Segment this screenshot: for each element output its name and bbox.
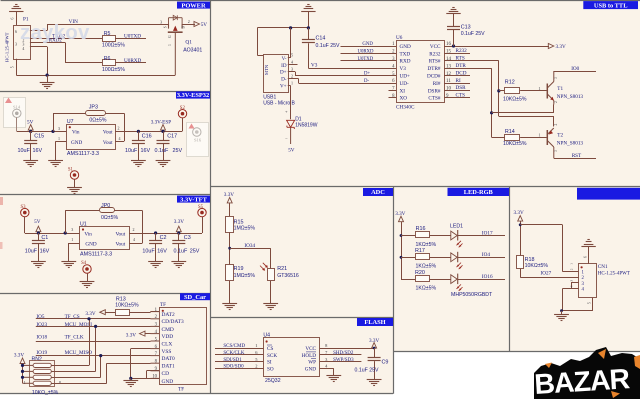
svg-text:GND: GND xyxy=(85,241,96,247)
svg-text:6: 6 xyxy=(11,18,15,20)
test point S14 (faded) xyxy=(4,98,26,128)
wire R17 to LED2 xyxy=(430,257,451,259)
svg-text:RTS: RTS xyxy=(456,56,465,62)
jumper JP0 xyxy=(100,208,115,213)
wire JP0 to Vout rail xyxy=(114,210,142,212)
svg-text:SCK/CLK: SCK/CLK xyxy=(223,351,245,356)
svg-text:Vout: Vout xyxy=(103,140,113,146)
svg-text:5: 5 xyxy=(291,53,293,58)
svg-text:POWER: POWER xyxy=(181,2,206,9)
svg-text:IO34: IO34 xyxy=(244,243,255,249)
ground CN1 bottom xyxy=(561,311,563,315)
svg-text:D-: D- xyxy=(364,79,369,84)
wire R13 to TF pin1 xyxy=(129,312,150,314)
wire usb D- to U6 UD- xyxy=(288,78,299,80)
wire P1 top pin to ground xyxy=(16,11,18,25)
svg-text:FLASH: FLASH xyxy=(364,319,385,326)
wire LED2 to IO4 xyxy=(458,257,505,259)
svg-text:IO16: IO16 xyxy=(482,274,493,280)
wire RN2 row3 pullup MISO xyxy=(51,377,100,379)
svg-text:V3: V3 xyxy=(400,66,407,72)
transistor T1 NPN_S8013 xyxy=(546,84,548,99)
wire P1 pin6 to VIN xyxy=(30,30,47,32)
svg-text:C3: C3 xyxy=(184,235,191,241)
svg-text:IO18: IO18 xyxy=(36,335,47,341)
svg-text:16V: 16V xyxy=(141,148,151,154)
svg-text:G: G xyxy=(168,35,172,38)
resistor R17 xyxy=(401,257,415,259)
wire RN2 row4 pullup DAT1 xyxy=(51,383,106,385)
svg-text:U1: U1 xyxy=(80,222,87,228)
node IO34 xyxy=(228,247,231,250)
wire U4 WP SWP/SD3 xyxy=(320,361,362,363)
section title bar 3.3V-ESP32 xyxy=(176,91,210,98)
svg-text:3: 3 xyxy=(291,66,293,71)
wire R12 left xyxy=(499,90,505,92)
svg-text:−: − xyxy=(285,137,288,142)
wire JP3 branch up xyxy=(53,113,55,131)
svg-text:LED-RGB: LED-RGB xyxy=(464,189,494,196)
ground POWER rail xyxy=(47,75,49,83)
svg-text:MHP5050RGBDT: MHP5050RGBDT xyxy=(451,292,493,298)
svg-text:Vin: Vin xyxy=(72,129,80,135)
svg-text:D+: D+ xyxy=(364,71,370,76)
svg-text:C13: C13 xyxy=(461,25,471,31)
svg-text:1KΩ±5%: 1KΩ±5% xyxy=(416,264,437,270)
svg-text:IO23: IO23 xyxy=(36,322,47,328)
svg-text:DTR#: DTR# xyxy=(428,66,441,72)
svg-text:0.1uF: 0.1uF xyxy=(174,249,188,255)
ground R19 xyxy=(222,303,237,305)
ground C1 xyxy=(31,261,46,263)
ground U1 xyxy=(61,261,76,263)
wire R18 to IO27 / CN1 pin2 xyxy=(520,269,522,278)
node CN1 ground xyxy=(560,309,563,312)
svg-text:10uF: 10uF xyxy=(25,249,38,255)
svg-text:SCS/CMD: SCS/CMD xyxy=(223,344,245,349)
section title bar LED-RGB xyxy=(448,188,510,196)
U7 pin4 wire xyxy=(115,141,124,143)
svg-text:NPN_S8013: NPN_S8013 xyxy=(557,140,584,146)
red watermark mark left border TFT xyxy=(0,197,3,205)
svg-text:1: 1 xyxy=(255,343,257,348)
svg-text:R5: R5 xyxy=(104,31,111,37)
ground TF xyxy=(130,378,132,380)
ground C3 xyxy=(171,261,186,263)
ground (inverted) usb xyxy=(301,11,315,13)
svg-text:DTR: DTR xyxy=(456,63,467,69)
wire S5 down xyxy=(202,217,204,233)
wire DTR to transistor branch xyxy=(444,68,492,70)
wire RN2 row1 pullup CS xyxy=(51,365,89,367)
U4 left net stubs xyxy=(215,348,263,350)
svg-text:2: 2 xyxy=(554,101,558,103)
svg-text:0.1uF 25V: 0.1uF 25V xyxy=(355,368,379,374)
U1 pin2 wire xyxy=(129,233,202,235)
node C17 xyxy=(161,130,164,133)
svg-text:SWP/SD3: SWP/SD3 xyxy=(333,358,354,363)
wire R15 to node IO34 xyxy=(229,232,231,264)
power arrow 3.3V vcc xyxy=(548,44,554,49)
svg-text:3.3V: 3.3V xyxy=(126,333,136,339)
svg-text:2: 2 xyxy=(188,19,190,24)
svg-text:3: 3 xyxy=(554,77,558,79)
section title bar FLASH xyxy=(357,318,393,326)
svg-text:IO17: IO17 xyxy=(482,230,493,236)
svg-text:USB1: USB1 xyxy=(263,94,276,100)
svg-text:DCD#: DCD# xyxy=(427,74,441,80)
svg-text:IO4: IO4 xyxy=(482,252,490,258)
wire R6 to U0RXD xyxy=(115,62,146,64)
svg-text:RTS#: RTS# xyxy=(429,59,441,65)
svg-text:C1: C1 xyxy=(41,235,48,241)
wire net IO5 TF_CS xyxy=(36,318,151,320)
CN1 pin3 pin4 stubs xyxy=(571,282,579,284)
svg-text:1: 1 xyxy=(570,263,574,265)
wire net IO18 TF_CLK xyxy=(36,341,151,343)
svg-text:R21: R21 xyxy=(277,266,287,272)
svg-text:C16: C16 xyxy=(142,134,152,140)
node RTS R12 junction xyxy=(497,89,500,92)
wire IO0 xyxy=(554,71,596,73)
svg-text:AMS1117-3.3: AMS1117-3.3 xyxy=(80,252,112,258)
svg-text:VCC: VCC xyxy=(305,346,316,352)
svg-text:DSR: DSR xyxy=(456,85,467,91)
svg-text:4: 4 xyxy=(133,237,135,242)
svg-text:1N5819W: 1N5819W xyxy=(295,122,318,128)
svg-text:1: 1 xyxy=(24,380,26,385)
svg-text:DAT1: DAT1 xyxy=(162,364,175,370)
svg-text:MCU_MISO: MCU_MISO xyxy=(65,350,93,356)
svg-text:6: 6 xyxy=(584,256,588,258)
bazar watermark logo xyxy=(534,347,640,399)
svg-text:CH340C: CH340C xyxy=(396,104,415,110)
svg-text:25V: 25V xyxy=(173,148,183,154)
svg-text:GT36516: GT36516 xyxy=(277,273,299,279)
section border frame xyxy=(1,0,640,2)
svg-text:C14: C14 xyxy=(316,36,326,42)
wire 3.3V to CN1 pin1 xyxy=(520,224,562,226)
svg-text:1KΩ±5%: 1KΩ±5% xyxy=(416,242,437,248)
svg-text:USB to TTL: USB to TTL xyxy=(594,2,628,9)
capacitor C14 xyxy=(308,28,310,40)
wire S14 to 5V rail xyxy=(16,118,18,132)
svg-text:XO: XO xyxy=(400,96,408,102)
wire R21 to ground xyxy=(270,281,272,304)
wire R12 to T1 base xyxy=(520,90,547,92)
wire S3 to rail xyxy=(24,217,26,233)
resistor R5 xyxy=(103,36,116,42)
capacitor C3 xyxy=(178,233,180,240)
svg-text:zaykov: zaykov xyxy=(20,21,90,44)
ground C15 xyxy=(23,160,38,162)
svg-text:10KΩ±5%: 10KΩ±5% xyxy=(115,303,139,309)
node C1 xyxy=(37,231,40,234)
section title bar POWER xyxy=(177,2,210,9)
svg-text:GND: GND xyxy=(305,366,316,372)
regulator U7 AMS1117-3.3 xyxy=(67,125,116,150)
U7 pin1 wire to ground xyxy=(56,141,67,143)
svg-text:DAT2: DAT2 xyxy=(162,312,175,318)
section title bar ADC xyxy=(363,188,393,196)
svg-text:DSR#: DSR# xyxy=(428,88,441,94)
svg-text:ADC: ADC xyxy=(371,189,385,196)
wire S4 to ground xyxy=(87,273,89,281)
wire V3 net xyxy=(308,68,396,70)
svg-text:3.3V-ESP32: 3.3V-ESP32 xyxy=(177,92,209,99)
svg-text:IO27: IO27 xyxy=(541,271,552,277)
svg-text:4: 4 xyxy=(22,46,24,51)
svg-text:10KΩ±5%: 10KΩ±5% xyxy=(503,96,527,102)
svg-text:1MΩ±5%: 1MΩ±5% xyxy=(234,273,256,279)
svg-text:R6: R6 xyxy=(104,56,111,62)
svg-text:3.3V: 3.3V xyxy=(514,210,524,216)
U1 pin1 wire to ground xyxy=(69,243,80,245)
ground C17 xyxy=(156,160,171,162)
wire ground rail POWER xyxy=(16,75,175,77)
node TF ground xyxy=(129,377,132,380)
svg-text:WP: WP xyxy=(308,360,316,366)
resistor R19 xyxy=(226,265,234,281)
U6 right stubs DCD RI DSR CTS xyxy=(444,75,470,77)
svg-text:2: 2 xyxy=(255,364,257,369)
wire usb V+ down to D1 xyxy=(288,85,291,87)
svg-text:3.3V-TFT: 3.3V-TFT xyxy=(180,196,207,203)
node JP3 branch xyxy=(51,130,54,133)
svg-text:2: 2 xyxy=(118,125,120,130)
wire JP0 branch xyxy=(65,211,67,234)
wire LED1 to IO17 xyxy=(458,235,505,237)
svg-text:5: 5 xyxy=(11,66,15,68)
LED green element xyxy=(451,253,457,262)
wire CD/GND pins xyxy=(147,370,160,372)
ground S1 xyxy=(67,187,82,189)
node usb gnd xyxy=(307,26,310,29)
wire T1 emitter return xyxy=(492,112,554,114)
svg-text:GND: GND xyxy=(71,140,82,146)
capacitor C2 xyxy=(155,233,157,240)
svg-text:R12: R12 xyxy=(505,79,515,85)
TF pin stubs xyxy=(151,311,160,313)
svg-text:R13: R13 xyxy=(116,296,126,302)
wire net IO19 MCU_MISO xyxy=(36,355,151,357)
svg-text:VCC: VCC xyxy=(430,44,441,50)
svg-text:RXD: RXD xyxy=(400,59,411,65)
svg-text:SD_Car: SD_Car xyxy=(184,294,206,301)
svg-text:CTS#: CTS# xyxy=(428,96,441,102)
svg-text:GND: GND xyxy=(400,44,411,50)
svg-text:10uF: 10uF xyxy=(142,249,155,255)
wire R5 to U0TXD xyxy=(115,38,146,40)
LED blue element xyxy=(451,275,457,284)
ground R21 xyxy=(263,303,278,305)
node 3.3V branch cn1 xyxy=(519,223,522,226)
node P1 gnd junction xyxy=(46,74,49,77)
svg-text:CD/DAT3: CD/DAT3 xyxy=(162,319,184,325)
svg-text:U0RXD: U0RXD xyxy=(124,58,142,64)
svg-text:10KΩ±5%: 10KΩ±5% xyxy=(503,141,527,147)
svg-text:DAT0: DAT0 xyxy=(162,356,175,362)
svg-text:VDD: VDD xyxy=(162,334,174,340)
svg-text:16V: 16V xyxy=(40,249,50,255)
svg-text:TF_CLK: TF_CLK xyxy=(65,335,84,341)
svg-text:4: 4 xyxy=(291,60,293,65)
svg-text:VSS: VSS xyxy=(162,349,172,355)
svg-text:IO19: IO19 xyxy=(36,350,47,356)
svg-text:10KΩ_±5%: 10KΩ_±5% xyxy=(32,390,59,396)
svg-text:4: 4 xyxy=(570,285,574,287)
svg-text:8: 8 xyxy=(59,380,61,385)
svg-text:MTN: MTN xyxy=(264,64,269,75)
svg-text:0.1uF 25V: 0.1uF 25V xyxy=(316,43,340,49)
capacitor C16 xyxy=(138,131,140,140)
CN1 pin6 wire up to ground xyxy=(588,247,590,264)
svg-text:R232: R232 xyxy=(429,51,441,57)
transistor T2 NPN_S8013 xyxy=(546,130,548,145)
node C9 xyxy=(373,347,376,350)
svg-text:T1: T1 xyxy=(557,86,563,92)
svg-text:AO3401: AO3401 xyxy=(183,48,202,54)
svg-text:HC-1.25-4PWT: HC-1.25-4PWT xyxy=(5,32,10,62)
svg-text:Vout: Vout xyxy=(103,129,113,135)
svg-text:4: 4 xyxy=(119,136,121,141)
node JP0 branch xyxy=(64,231,67,234)
svg-text:1: 1 xyxy=(539,86,541,91)
ground C2 xyxy=(148,261,163,263)
resistor R15 xyxy=(226,217,234,233)
svg-text:RI: RI xyxy=(456,78,461,84)
svg-text:SDO/SD0: SDO/SD0 xyxy=(223,365,244,370)
node C2 xyxy=(154,231,157,234)
svg-text:SCK: SCK xyxy=(267,353,277,359)
svg-text:0Ω±5%: 0Ω±5% xyxy=(101,215,118,221)
svg-text:CLX: CLX xyxy=(162,341,173,347)
wire IO34 branch xyxy=(230,248,271,250)
ground (inverted) C13 xyxy=(446,13,460,15)
svg-text:1: 1 xyxy=(71,237,73,242)
svg-text:3: 3 xyxy=(15,42,17,47)
ground U4 xyxy=(326,375,341,377)
wire RST xyxy=(554,158,596,160)
wire net IO23 MCU_MOSI xyxy=(36,326,151,328)
resistor R6 xyxy=(103,60,116,66)
wire R16 to LED1 xyxy=(430,235,451,237)
ground S4 xyxy=(80,281,95,283)
svg-text:CTS: CTS xyxy=(456,93,466,99)
svg-text:3.3V: 3.3V xyxy=(85,311,95,317)
svg-text:3: 3 xyxy=(160,20,162,25)
wire LED3 to IO16 xyxy=(458,279,505,281)
svg-text:SI: SI xyxy=(267,360,272,366)
svg-text:HC-1.25-4PWT: HC-1.25-4PWT xyxy=(598,272,630,277)
svg-text:12: 12 xyxy=(446,72,452,77)
svg-text:SDI/SD1: SDI/SD1 xyxy=(223,358,242,363)
U6 right stub R232 xyxy=(444,53,470,55)
ground C9 xyxy=(367,379,382,381)
svg-text:1: 1 xyxy=(291,80,293,85)
node DTR emitter junction xyxy=(490,111,493,114)
regulator U1 AMS1117-3.3 xyxy=(80,227,130,250)
svg-text:5V: 5V xyxy=(201,22,208,28)
wire S2 down xyxy=(182,118,184,131)
ground C16 xyxy=(131,160,146,162)
svg-text:16V: 16V xyxy=(33,148,43,154)
svg-text:D-: D- xyxy=(281,77,287,83)
svg-text:MCU_MOSI: MCU_MOSI xyxy=(65,322,93,328)
wire RTS to transistor T2 branch xyxy=(444,60,499,62)
svg-text:5V: 5V xyxy=(34,219,41,225)
connector CN1 HC-1.25-4PWT xyxy=(579,264,597,298)
svg-text:2: 2 xyxy=(291,73,293,78)
svg-text:1: 1 xyxy=(539,133,541,138)
node usb shield xyxy=(289,26,292,29)
svg-text:RST: RST xyxy=(572,153,582,159)
wire usb V- up xyxy=(288,57,291,59)
svg-text:JP3: JP3 xyxy=(89,104,98,110)
svg-text:S: S xyxy=(164,26,168,28)
svg-text:2: 2 xyxy=(570,268,574,270)
svg-text:AMS1117-3.3: AMS1117-3.3 xyxy=(67,151,99,157)
capacitor C13 xyxy=(453,30,455,47)
svg-text:U0TXD: U0TXD xyxy=(124,33,141,39)
wire JP3 to Vout rail xyxy=(105,113,124,115)
photoresistor R21 GT36516 xyxy=(268,269,275,281)
svg-text:1: 1 xyxy=(168,44,172,46)
svg-text:1KΩ±5%: 1KΩ±5% xyxy=(416,285,437,291)
svg-text:SHD/SD2: SHD/SD2 xyxy=(333,351,354,356)
svg-text:3.3V: 3.3V xyxy=(224,192,234,198)
svg-text:16V: 16V xyxy=(157,249,167,255)
svg-text:U7: U7 xyxy=(67,119,74,125)
svg-text:25Q32: 25Q32 xyxy=(265,378,281,384)
node C3 xyxy=(177,231,180,234)
svg-text:HOLD: HOLD xyxy=(302,353,317,359)
svg-text:2: 2 xyxy=(133,227,135,232)
svg-text:Q1: Q1 xyxy=(185,39,192,45)
svg-text:10uF: 10uF xyxy=(18,148,31,154)
svg-text:IO0: IO0 xyxy=(571,66,579,72)
svg-text:TF: TF xyxy=(178,386,184,392)
svg-text:SO: SO xyxy=(267,366,274,372)
wire R19 to ground xyxy=(229,281,231,304)
capacitor C15 xyxy=(30,131,32,140)
svg-text:UD-: UD- xyxy=(400,81,409,87)
wire RN2 row2 pullup MOSI xyxy=(51,371,95,373)
wire Q1 to 5V xyxy=(182,24,195,26)
svg-text:R232: R232 xyxy=(456,48,468,54)
connector P1 xyxy=(14,26,31,60)
svg-text:10uF: 10uF xyxy=(125,148,138,154)
U6 left stubs GND/U0RXD/U0TXD xyxy=(341,46,397,48)
svg-text:3: 3 xyxy=(570,280,574,282)
svg-text:Vout: Vout xyxy=(115,241,125,247)
connector USB1 Micro B xyxy=(264,55,289,93)
U7 pin2 wire xyxy=(115,131,182,133)
wire P1 pin2 TXD2 to R5 xyxy=(30,38,102,40)
svg-text:10KΩ±5%: 10KΩ±5% xyxy=(525,263,549,269)
svg-text:V+: V+ xyxy=(280,84,287,90)
resistor R16 xyxy=(401,235,415,237)
svg-text:V3: V3 xyxy=(311,63,318,69)
wire R14 left xyxy=(492,137,505,139)
svg-text:C17: C17 xyxy=(167,134,177,140)
svg-text:ID: ID xyxy=(281,63,287,69)
svg-text:S16: S16 xyxy=(194,138,202,143)
wire P1 pin3 RXD2 xyxy=(30,42,65,44)
svg-text:3.3V: 3.3V xyxy=(174,219,184,225)
svg-text:TXD: TXD xyxy=(400,51,411,57)
svg-text:3.3V-ESP: 3.3V-ESP xyxy=(151,119,172,125)
